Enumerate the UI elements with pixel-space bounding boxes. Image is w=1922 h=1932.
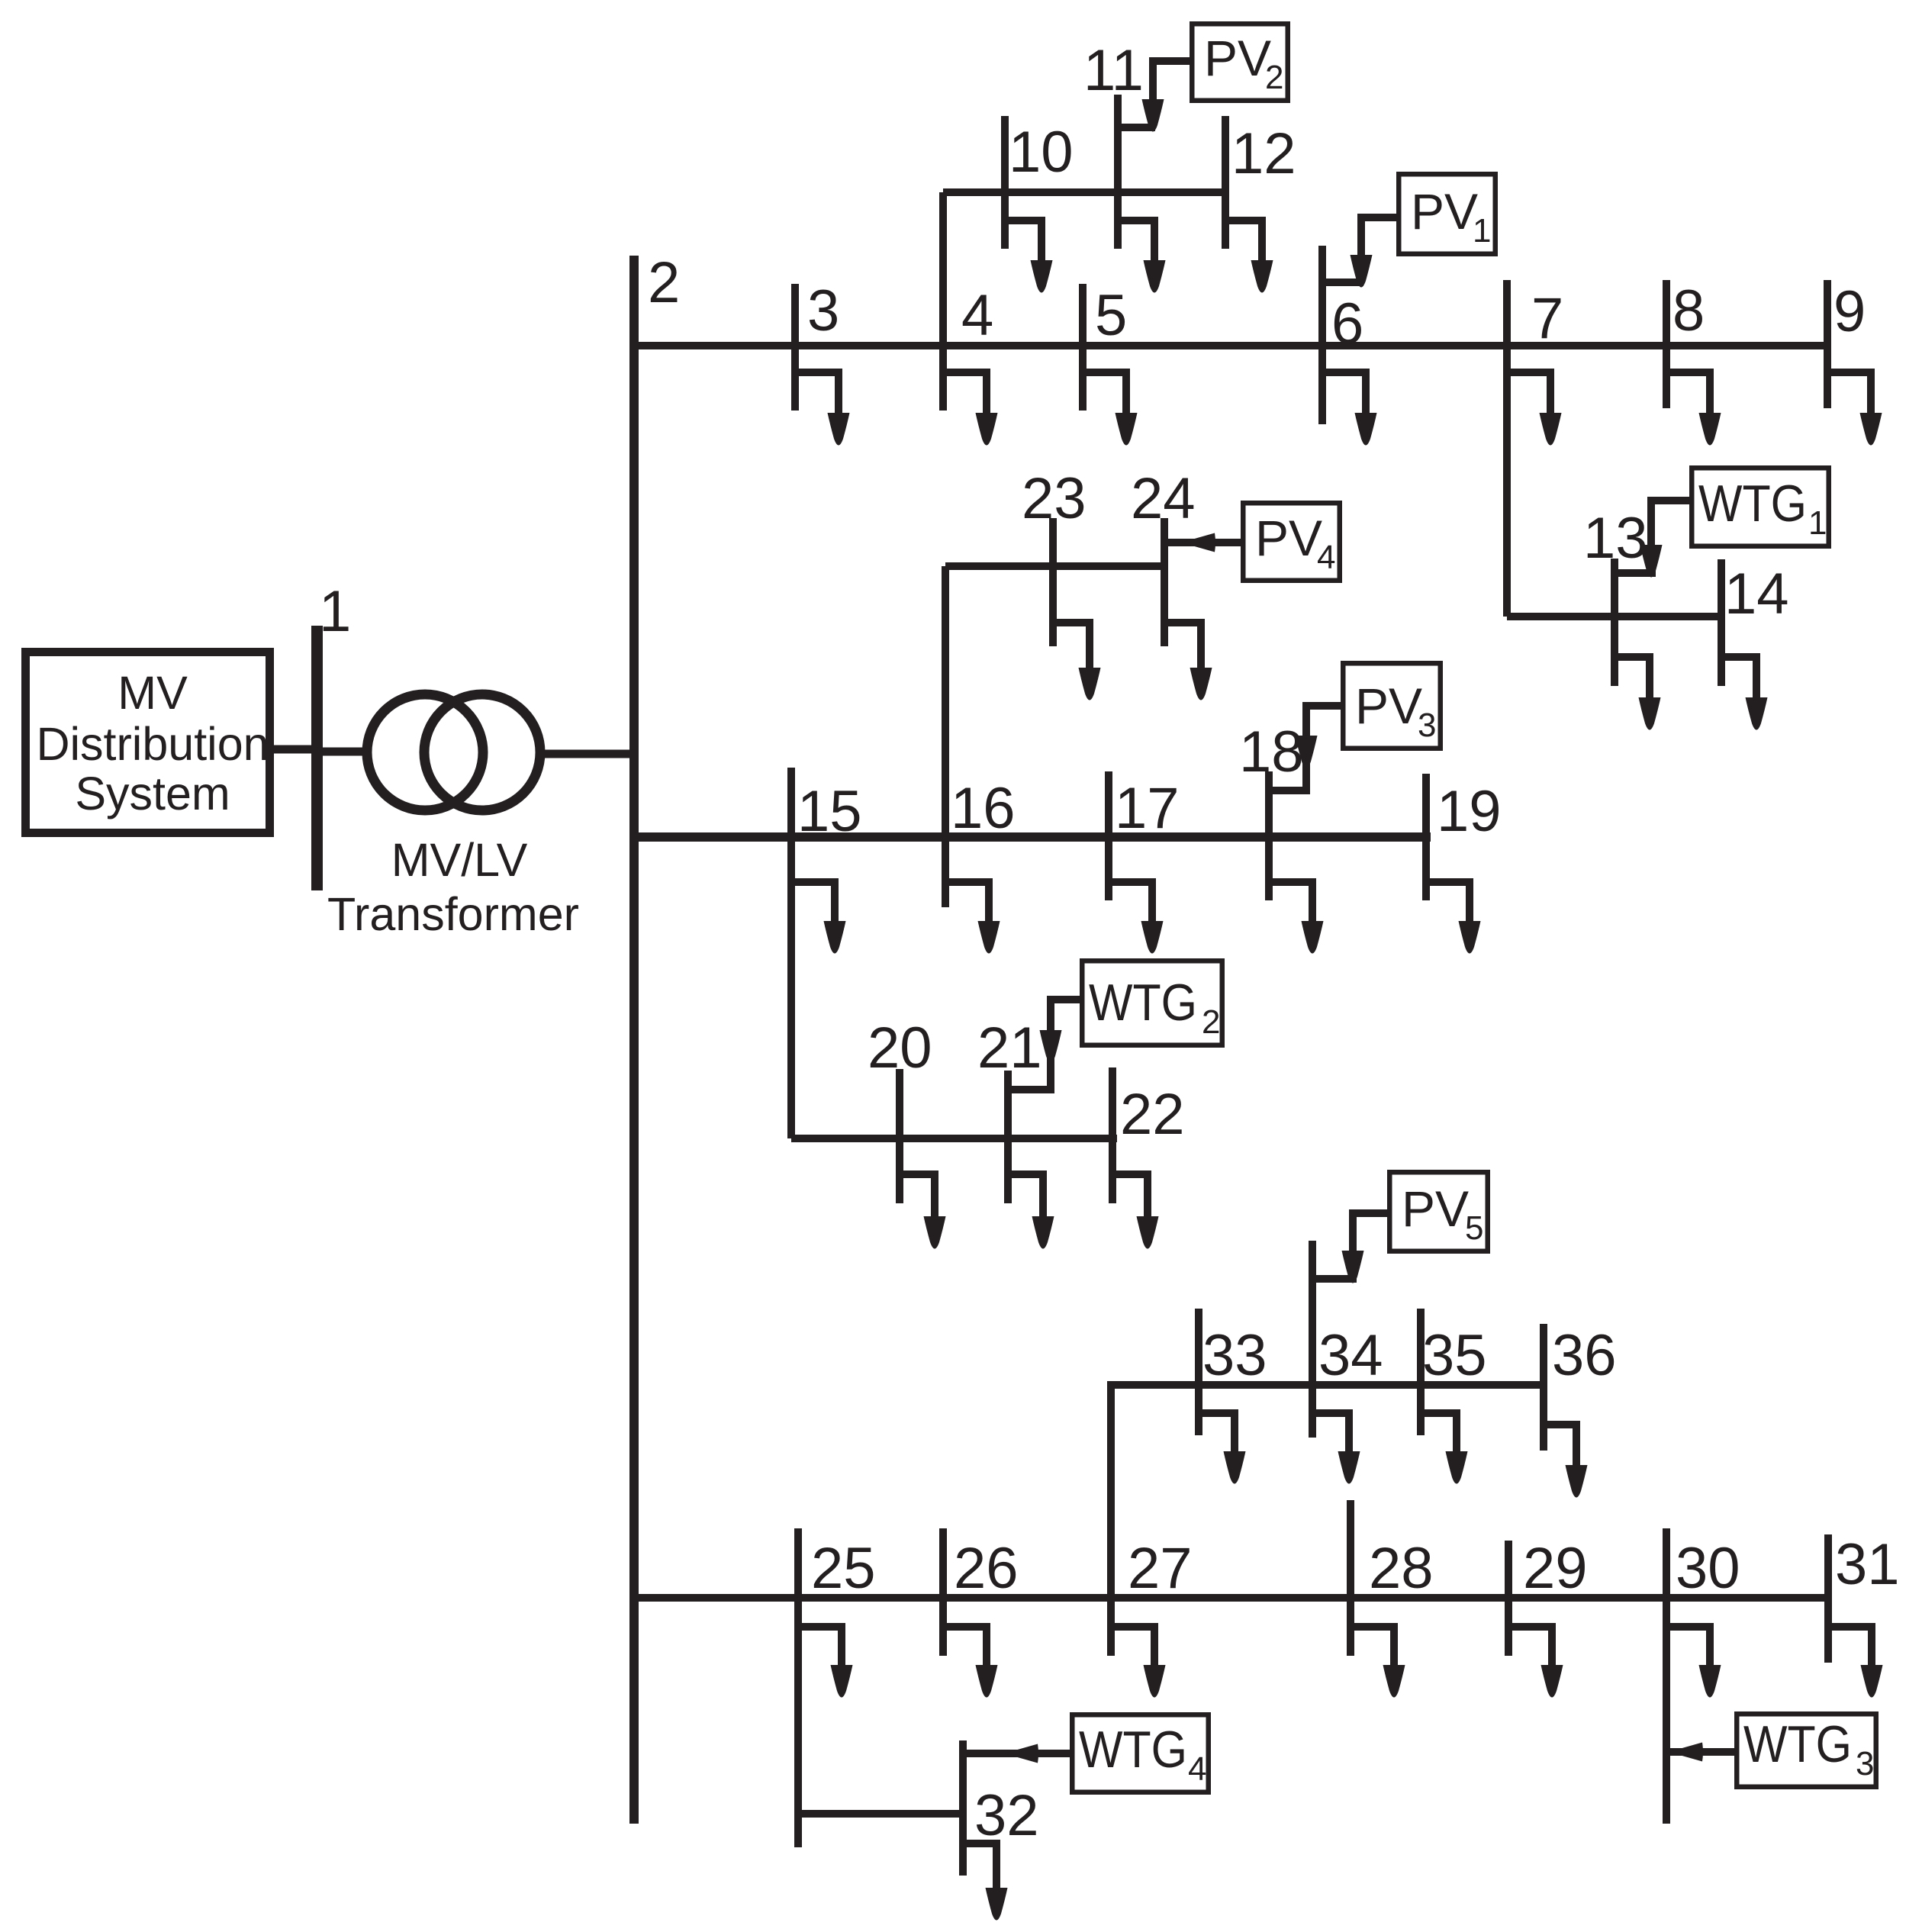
svg-text:3: 3 [807,279,839,343]
sub-feeder wire bus 16 to buses 23-24 [945,562,1168,570]
sub-feeder wire buses 10-12 [943,188,1229,196]
feeder wire bus2 to buses 3-9 [634,342,1831,349]
bus 6 bar [1318,246,1326,424]
svg-text:1: 1 [1808,504,1827,542]
svg-text:32: 32 [974,1783,1039,1848]
svg-text:WTG: WTG [1743,1715,1852,1773]
svg-text:25: 25 [811,1536,876,1601]
transformer U1 primary winding [367,694,483,810]
WTG1 generator box [1692,468,1829,546]
svg-text:14: 14 [1724,562,1789,626]
svg-text:17: 17 [1115,776,1180,841]
load arrow at bus 10 [1005,217,1053,293]
bus 11 bar [1114,95,1122,249]
load arrow at bus 17 [1109,878,1164,954]
svg-text:5: 5 [1095,283,1127,348]
feeder wire bus2 to buses 15-19 [634,832,1431,842]
load arrow at bus 23 [1053,619,1101,700]
bus 21 bar [1004,1071,1012,1203]
svg-text:16: 16 [951,776,1016,841]
bus 24 bar [1161,518,1168,646]
bus 16 bar with riser up to sub-feeder 23-24 [942,566,949,907]
sub-feeder wire bus 27 riser to buses 33-36 [1111,1385,1547,1656]
svg-text:1: 1 [319,579,351,644]
sub-feeder wire bus 25 to bus 32 [798,1810,963,1818]
bus 12 bar [1222,116,1229,249]
bus 33 bar [1195,1309,1202,1435]
WTG3 generator box [1737,1714,1876,1787]
svg-text:2: 2 [1202,1003,1220,1041]
PV3 connection wire with arrow into bus 18 [1269,706,1341,791]
svg-text:12: 12 [1231,121,1296,186]
load arrow at bus 5 [1083,369,1138,446]
bus 32 bar [959,1740,967,1876]
svg-text:10: 10 [1009,120,1074,185]
svg-text:WTG: WTG [1079,1721,1187,1779]
PV5 generator box [1389,1172,1488,1251]
bus 35 bar [1417,1309,1425,1435]
load arrow at bus 32 [963,1840,1008,1921]
svg-text:23: 23 [1022,466,1087,531]
svg-text:7: 7 [1531,286,1563,351]
wire from MV box to bus 1 [274,745,320,754]
svg-text:4: 4 [961,283,993,348]
svg-text:2: 2 [1265,59,1283,96]
load arrow at bus 16 [945,878,1000,954]
svg-text:31: 31 [1835,1532,1900,1597]
load arrow at bus 11 [1118,217,1166,293]
svg-text:28: 28 [1369,1536,1434,1601]
bus 2 main vertical bus [629,256,639,1824]
wire transformer to bus 2 [539,750,639,758]
feeder wire bus2 to buses 25-31 [634,1594,1832,1602]
load arrow at bus 18 [1269,878,1324,954]
svg-text:PV: PV [1402,1180,1469,1237]
svg-text:35: 35 [1422,1323,1487,1388]
PV3 generator box [1343,663,1441,749]
PV2 generator box [1192,24,1288,101]
bus 4 bar with riser to sub-feeder 10-12 [939,192,947,411]
WTG2 generator box [1082,961,1222,1045]
bus 9 bar [1824,280,1831,408]
load arrow at bus 24 [1164,619,1212,700]
WTG2 connection wire with arrow into bus 21 [1008,1000,1080,1090]
PV1 connection wire with arrow into bus 6 [1322,217,1396,288]
load arrow at bus 15 [791,878,846,954]
bus 30 bar with riser down to WTG3 [1663,1528,1670,1824]
bus 25 bar with riser down to sub-feeder 32 [794,1528,802,1847]
bus 29 bar [1505,1541,1512,1656]
bus 17 bar [1105,771,1112,900]
bus 7 bar with riser to sub-feeder 13-14 [1503,280,1511,617]
svg-text:20: 20 [868,1016,932,1080]
PV4 connection wire with arrow into bus 24 [1164,533,1241,552]
load arrow at bus 19 [1426,878,1481,954]
svg-text:3: 3 [1418,707,1436,744]
svg-text:19: 19 [1437,779,1502,844]
svg-text:6: 6 [1331,291,1363,356]
svg-text:27: 27 [1128,1536,1193,1601]
load arrow at bus 12 [1225,217,1273,293]
PV5 connection wire with arrow into bus 34 [1313,1213,1387,1283]
load arrow at bus 26 [943,1623,998,1698]
load arrow at bus 6 [1322,369,1377,446]
svg-text:15: 15 [797,779,862,844]
bus 14 bar [1718,559,1725,686]
sub-feeder wire bus 7 to buses 13-14 [1507,613,1725,620]
svg-text:4: 4 [1317,539,1335,576]
load arrow at bus 8 [1666,369,1721,446]
load arrow at bus 29 [1508,1623,1563,1698]
load arrow at bus 27 [1111,1623,1166,1698]
MV Distribution System box [26,652,270,833]
svg-text:29: 29 [1523,1536,1588,1601]
bus 5 bar [1079,284,1087,411]
svg-text:8: 8 [1672,279,1705,343]
PV2 connection wire with arrow into bus 11 [1118,61,1190,132]
svg-text:2: 2 [648,250,680,315]
load arrow at bus 21 [1008,1170,1054,1249]
bus 15 bar with riser down to sub-feeder 20-22 [787,768,795,1138]
bus 23 bar [1049,518,1057,646]
svg-text:9: 9 [1833,279,1866,344]
svg-text:System: System [75,768,230,819]
MV/LV Transformer label [327,834,579,940]
svg-text:MV/LV: MV/LV [391,834,528,886]
load arrow at bus 31 [1828,1623,1883,1698]
svg-text:3: 3 [1856,1745,1874,1782]
load arrow at bus 3 [795,369,850,446]
load arrow at bus 4 [943,369,998,446]
bus 28 bar with tall riser [1347,1500,1354,1656]
bus 10 bar [1001,116,1009,249]
svg-text:34: 34 [1318,1323,1383,1388]
load arrow at bus 28 [1351,1623,1405,1698]
load arrow at bus 30 [1666,1623,1721,1698]
bus 18 bar [1265,771,1273,900]
svg-text:30: 30 [1676,1536,1740,1601]
PV1 generator box [1399,174,1495,254]
load arrow at bus 7 [1507,369,1562,446]
load arrow at bus 22 [1112,1170,1159,1249]
sub-feeder wire bus 15 to buses 20-22 [791,1135,1117,1142]
svg-text:5: 5 [1465,1209,1483,1247]
load arrow at bus 13 [1615,653,1661,730]
svg-text:Distribution: Distribution [36,718,269,770]
transformer U1 secondary winding [424,694,540,810]
svg-text:PV: PV [1411,183,1478,240]
svg-text:4: 4 [1188,1750,1206,1788]
svg-text:Transformer: Transformer [327,888,579,940]
svg-text:33: 33 [1202,1323,1267,1388]
svg-text:21: 21 [977,1016,1042,1080]
WTG3 connection wire with arrow into bus 30 [1666,1743,1734,1762]
bus 8 bar [1663,280,1670,408]
load arrow at bus 9 [1827,369,1882,446]
svg-text:18: 18 [1239,720,1304,784]
svg-text:1: 1 [1473,212,1491,250]
load arrow at bus 14 [1721,653,1768,730]
bus 13 bar [1611,559,1618,686]
svg-text:22: 22 [1120,1082,1185,1147]
load arrow at bus 33 [1199,1409,1246,1484]
bus 3 bar [791,284,799,411]
bus 20 bar [896,1069,903,1203]
svg-text:MV: MV [118,667,188,719]
wire bus 1 to transformer [317,748,369,756]
load arrow at bus 25 [798,1623,853,1698]
svg-text:24: 24 [1131,466,1196,531]
bus 22 bar [1109,1067,1116,1203]
bus 19 bar [1422,774,1430,900]
bus 1 bar [311,626,323,890]
bus 36 bar [1540,1324,1547,1451]
PV4 generator box [1243,503,1340,581]
svg-text:13: 13 [1583,506,1648,571]
svg-text:WTG: WTG [1698,475,1807,533]
svg-text:PV: PV [1204,30,1271,86]
bus 31 bar [1824,1534,1832,1663]
bus 34 bar with riser to PV5 [1309,1241,1316,1438]
WTG4 generator box [1072,1715,1209,1792]
bus 26 bar [939,1528,947,1656]
WTG4 connection wire with arrow into bus 32 [963,1744,1070,1763]
load arrow at bus 35 [1421,1409,1468,1484]
load arrow at bus 20 [900,1170,946,1249]
WTG1 connection wire with arrow into bus 13 [1615,501,1689,578]
svg-text:WTG: WTG [1089,974,1197,1032]
load arrow at bus 34 [1312,1409,1360,1484]
svg-text:36: 36 [1552,1323,1617,1388]
svg-text:PV: PV [1255,510,1322,566]
svg-text:PV: PV [1355,678,1422,734]
svg-text:26: 26 [954,1536,1019,1601]
svg-text:11: 11 [1083,38,1144,103]
load arrow at bus 36 [1544,1421,1588,1498]
